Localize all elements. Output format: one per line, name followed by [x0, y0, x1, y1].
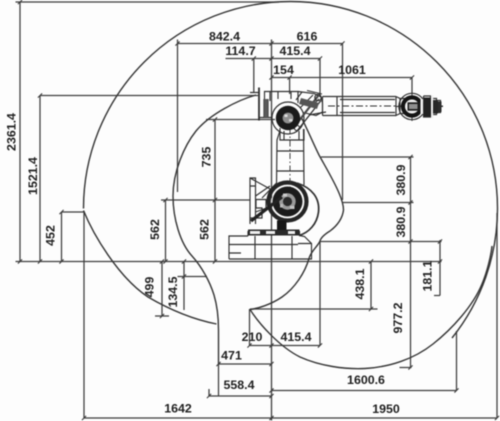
dim 616 line — [272, 43, 343, 45]
svg-text:210: 210 — [242, 330, 263, 344]
lower arm centerline — [289, 128, 291, 192]
shoulder brace (thick diagonal) — [251, 197, 282, 221]
svg-text:1600.6: 1600.6 — [347, 373, 385, 387]
dim 1950 — [272, 213, 498, 418]
elbow housing block — [265, 92, 299, 104]
elbow casting slants — [296, 92, 319, 112]
svg-text:2361.4: 2361.4 — [5, 113, 19, 151]
dim 181.1 — [434, 240, 440, 296]
floor baseline — [16, 261, 442, 263]
wrist crosshair — [397, 93, 444, 122]
upper arm tube — [323, 97, 405, 116]
inner min-reach boundary (pear left) — [173, 95, 256, 364]
svg-text:1521.4: 1521.4 — [26, 157, 40, 195]
dim 471 — [219, 364, 272, 396]
wrist drive ring — [401, 95, 423, 117]
shoulder drive ring — [273, 187, 303, 217]
black square on base — [277, 221, 287, 231]
svg-text:1642: 1642 — [164, 402, 192, 416]
base mounting plate (dark) — [248, 230, 300, 236]
robot — [229, 88, 443, 260]
flange dark bands — [424, 98, 432, 117]
svg-text:842.4: 842.4 — [209, 30, 240, 44]
svg-text:735: 735 — [200, 147, 214, 168]
lower-left envelope arc — [84, 211, 217, 325]
elbow right casting — [298, 92, 323, 116]
svg-text:154: 154 — [273, 63, 294, 77]
dim 438.1 — [250, 262, 378, 310]
ext shoulder height — [161, 199, 250, 201]
robot base foot box — [229, 236, 312, 259]
svg-text:134.5: 134.5 — [166, 276, 180, 307]
svg-text:380.9: 380.9 — [394, 164, 408, 195]
svg-text:977.2: 977.2 — [391, 302, 405, 333]
dim 134.5 — [178, 262, 208, 311]
elbow back bracket — [258, 88, 260, 121]
wrist cartridge bar — [408, 102, 442, 110]
svg-text:181.1: 181.1 — [421, 260, 435, 291]
svg-text:380.9: 380.9 — [394, 206, 408, 237]
dim 1642 — [84, 211, 272, 418]
tool flange stack — [424, 96, 441, 117]
dim 154 / 1061 line — [272, 78, 413, 95]
svg-text:499: 499 — [143, 277, 157, 298]
elbow below bracket — [280, 128, 304, 140]
svg-text:562: 562 — [148, 219, 162, 240]
link rod to arm — [293, 98, 321, 132]
shoulder rear housing — [297, 183, 319, 236]
robot base inner lines — [248, 231, 300, 259]
inner boundary (pear right) — [250, 117, 344, 310]
svg-text:616: 616 — [297, 30, 318, 44]
elbow outer circle — [272, 102, 304, 134]
dims 380.9/380.9 chain verticals — [320, 157, 442, 262]
lower arm — [277, 129, 305, 185]
dim 1600.6 — [272, 331, 457, 391]
dim 562 left — [165, 200, 167, 262]
arm tube centerline — [328, 105, 443, 107]
robot base right step — [298, 236, 312, 260]
shoulder left bracket — [250, 178, 272, 224]
svg-text:1061: 1061 — [338, 63, 366, 77]
svg-text:415.4: 415.4 — [279, 44, 310, 58]
svg-text:114.7: 114.7 — [225, 44, 255, 58]
outer max-reach circle — [84, 2, 498, 339]
dim 114.7 / 415.4 top line — [226, 59, 321, 97]
lower lobe arc — [250, 246, 492, 369]
dark masses — [248, 95, 442, 235]
envelope curves — [84, 2, 498, 369]
svg-text:471: 471 — [221, 349, 242, 363]
shoulder housing circle — [269, 183, 307, 221]
svg-text:1950: 1950 — [372, 402, 400, 416]
wrist outer circle — [399, 93, 425, 119]
svg-text:562: 562 — [198, 219, 212, 240]
dim 558.4 — [209, 389, 272, 396]
svg-text:438.1: 438.1 — [353, 268, 367, 299]
dim 499 — [155, 262, 169, 317]
dim 735 vertical — [206, 120, 275, 201]
elbow drive ring — [276, 106, 300, 130]
dim 842.4 line — [178, 40, 272, 193]
svg-text:558.4: 558.4 — [223, 378, 254, 392]
dim 562 right — [214, 200, 216, 262]
dim 210 / 415.4 bottom — [250, 242, 321, 346]
dim 1521.4 vertical — [40, 96, 258, 262]
dim 977.2 — [400, 262, 412, 368]
svg-text:415.4: 415.4 — [280, 330, 311, 344]
axis-1 centerline — [271, 40, 273, 421]
dim 452 vertical — [62, 212, 85, 262]
top extension line (max height) — [16, 1, 280, 3]
dim 2361.4 vertical — [19, 2, 21, 262]
svg-text:452: 452 — [44, 225, 58, 246]
shoulder bracket slants — [256, 183, 277, 212]
ext for 616 right end — [342, 44, 344, 201]
